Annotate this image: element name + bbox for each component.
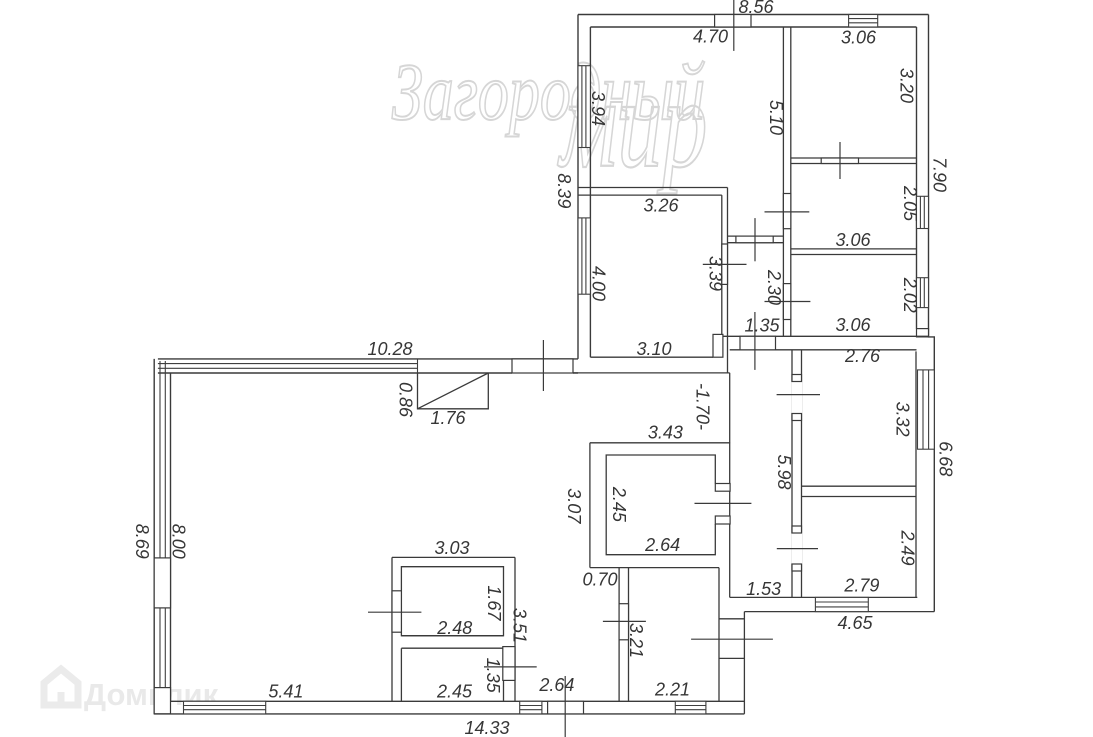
svg-text:0.86: 0.86 [396,382,416,418]
svg-text:1.53: 1.53 [746,579,781,599]
door marker: room 2.49 [777,548,818,550]
wall: room 3.10 bottom [573,357,730,373]
svg-text:5.98: 5.98 [774,455,794,490]
door marker: corridor to room 2.02 [765,301,811,303]
door: bathroom 2.48 [392,591,401,632]
wall: upper block top exterior [578,15,929,28]
svg-text:8.69: 8.69 [132,524,152,559]
wall: niche right of room 2.21 [719,568,744,702]
wall: bathroom room 2.48 inner [401,567,503,636]
svg-text:3.10: 3.10 [636,339,671,359]
door marker: wall 3.21 [603,620,646,622]
wall: 3.21 divider [619,568,628,702]
svg-text:7.90: 7.90 [930,157,950,192]
svg-text:2.45: 2.45 [436,682,473,702]
door marker: bottom wall [564,676,566,737]
svg-text:3.32: 3.32 [893,402,913,437]
wall: lower-right inner right [915,351,917,597]
wall: middle block outer [590,443,730,568]
svg-text:8.56: 8.56 [738,0,774,17]
door marker: room 2.76 [777,394,820,396]
svg-text:3.06: 3.06 [841,28,877,48]
window: bottom wall 2.79 [815,597,868,611]
svg-text:2.45: 2.45 [609,486,629,523]
svg-text:8.39: 8.39 [554,173,574,208]
door: room 3.26 [722,244,728,284]
watermark Domclick house icon [44,669,78,705]
wall: corridor 5.98 right [792,350,802,598]
door: middle room [715,484,730,525]
door marker: middle room [695,502,752,504]
window: right wall room 2.02 [917,278,929,308]
svg-text:5.10: 5.10 [766,100,786,135]
svg-text:0.70: 0.70 [582,570,617,590]
wall: lower block left exterior [154,359,170,714]
door: corridor to room 2.49 [791,526,802,571]
svg-text:1.35: 1.35 [744,316,780,336]
door: bottom wall [548,701,584,714]
vent box corridor 1.35 [713,334,723,357]
door marker: big room to corridor [754,218,756,261]
svg-text:2.05: 2.05 [900,185,920,222]
wall: rooms 2.05/2.02 divider [791,249,917,255]
svg-text:3.21: 3.21 [626,623,646,658]
wall: rooms 2.76/2.49 divider [802,486,917,496]
door marker: room 3.06 top [839,142,841,179]
wall: upper block left exterior [578,15,590,359]
svg-text:3.39: 3.39 [706,256,726,291]
door: corridor to room 2.02 [783,284,790,320]
svg-text:3.07: 3.07 [564,488,584,524]
svg-text:2.64: 2.64 [538,675,574,695]
svg-text:3.20: 3.20 [897,68,917,103]
svg-text:2.76: 2.76 [844,346,881,366]
door marker: room 3.26 [703,263,747,265]
wall: room 3.06 top bottom wall [791,158,917,164]
wall: bathroom room 2.45 inner [401,648,503,701]
svg-text:4.00: 4.00 [589,266,609,301]
door: wall 3.21 [619,604,628,640]
door: top wall entrance [715,15,751,28]
window: bottom wall left [184,701,266,714]
svg-text:4.65: 4.65 [837,613,873,633]
svg-text:3.43: 3.43 [648,422,683,442]
door: corridor to room 2.05 [783,194,790,229]
svg-text:1.67: 1.67 [484,585,504,621]
svg-text:4.70: 4.70 [693,27,728,47]
window: right wall 3.32 [918,370,935,449]
svg-text:3.51: 3.51 [510,608,530,643]
door marker: lower top wall [542,340,544,391]
door: lower block top wall [512,359,573,373]
door marker: corridor 1.35 [754,312,756,370]
svg-text:5.41: 5.41 [268,682,303,702]
svg-text:3.03: 3.03 [434,538,469,558]
wall: between big room and room 3.26 [578,188,728,196]
svg-text:2.48: 2.48 [436,618,472,638]
door: corridor to room 2.76 [791,375,802,421]
door marker: top entrance [733,0,735,51]
wall: bathroom block outer [392,557,515,701]
wall: bathroom divider [401,636,503,649]
door: bathroom 2.45 [503,647,515,681]
wall: right exterior (upper+lower blocks) [917,15,935,612]
svg-text:-1.70-: -1.70- [693,383,713,430]
wall notch box right [917,329,929,337]
svg-text:3.06: 3.06 [835,230,871,250]
window: upper left wall 1 [578,66,590,148]
svg-text:2.21: 2.21 [654,680,690,700]
svg-text:2.02: 2.02 [900,277,920,313]
window: bottom wall middle [520,701,542,714]
stairs [418,373,489,409]
door marker: bathroom 2.48 [368,611,421,613]
wall: right side of room 3.26 [722,188,728,373]
door marker: niche [691,638,773,640]
svg-text:2.49: 2.49 [898,530,918,566]
svg-text:3.94: 3.94 [588,91,608,126]
svg-text:2.79: 2.79 [843,576,879,596]
svg-text:10.28: 10.28 [367,339,412,359]
svg-text:6.68: 6.68 [936,441,956,476]
door marker: bathroom 2.45 [484,666,537,668]
svg-text:1.35: 1.35 [483,658,503,694]
wall: big room / right rooms [783,27,790,336]
window: upper left wall 2 [578,218,590,294]
wall: lower block top band [158,359,578,373]
svg-text:2.64: 2.64 [644,535,680,555]
svg-text:3.26: 3.26 [643,196,679,216]
wall: lower-right block top [723,336,929,350]
svg-text:1.76: 1.76 [430,408,466,428]
wall: middle block inner room [606,455,715,555]
wall: corridor 5.98 left boundary [729,373,731,598]
wall box: bottom-left corner [154,688,170,714]
svg-text:2.30: 2.30 [764,269,784,305]
door: room 3.06 top [821,158,858,164]
door: corridor 1.35 down [740,336,776,350]
door marker: corridor to room 2.05 [765,211,810,213]
wall: lower-right block bottom [730,597,935,714]
window band: lower block top [158,359,418,373]
svg-text:14.33: 14.33 [464,718,509,737]
window: right wall room 2.05 [917,196,929,228]
wall box: left wall plain segment [154,558,170,608]
window: bottom wall right [675,701,706,714]
svg-text:8.00: 8.00 [169,524,189,559]
door: big room to corridor [736,236,773,243]
window: top wall [849,15,878,28]
window band: left wall [160,361,165,688]
wall: lower block bottom exterior [154,701,744,714]
wall: corridor 2.30 top [728,236,784,243]
svg-text:3.06: 3.06 [835,315,871,335]
